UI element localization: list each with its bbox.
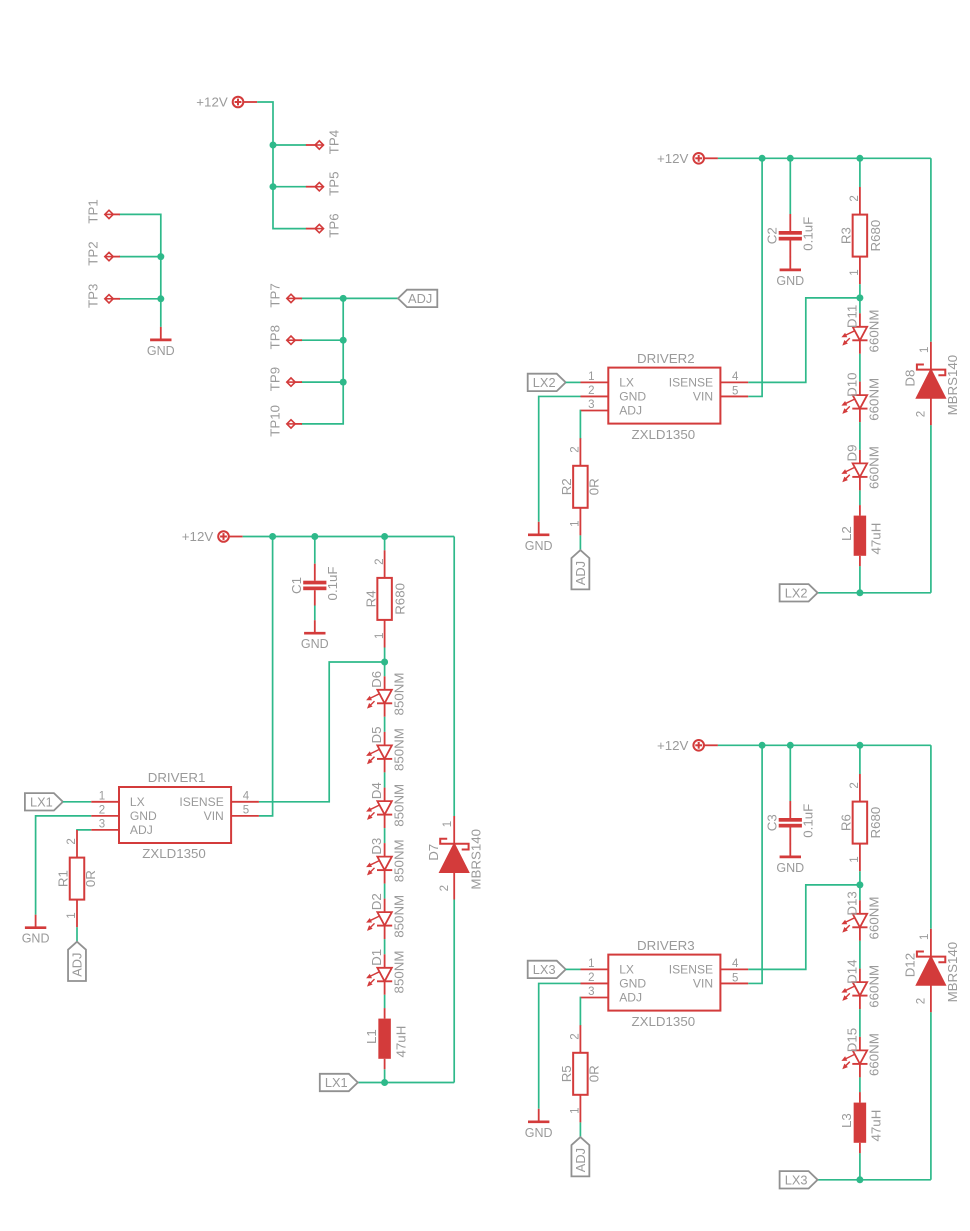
svg-text:2: 2 <box>916 411 928 417</box>
wire ISENSE driver3 <box>748 885 860 970</box>
wire rail to R6 <box>859 745 861 774</box>
wire pin3 to R5 <box>579 998 581 1026</box>
svg-text:+12V: +12V <box>182 529 214 544</box>
wire LX3 to pin1 <box>566 968 581 970</box>
junction R4 rail <box>381 533 388 540</box>
svg-text:4: 4 <box>732 371 739 383</box>
LED D1 850NM <box>366 949 406 995</box>
svg-text:GND: GND <box>776 274 804 288</box>
svg-text:3: 3 <box>588 399 594 411</box>
svg-text:D2: D2 <box>369 893 384 910</box>
junction TP9 node <box>340 379 347 386</box>
svg-text:R6: R6 <box>839 814 854 831</box>
wire pin3 to R2 <box>579 411 581 439</box>
svg-text:D4: D4 <box>369 782 384 799</box>
svg-text:660NM: 660NM <box>867 965 882 1008</box>
svg-text:TP7: TP7 <box>268 283 283 307</box>
wire TP5 branch <box>273 186 306 188</box>
wire D6 to D5 <box>384 717 386 732</box>
ground GND at C3 <box>776 844 804 875</box>
svg-text:ADJ: ADJ <box>619 991 642 1005</box>
wire R1 to ADJ flag <box>76 927 78 942</box>
resistor R5 0R <box>559 1025 601 1122</box>
svg-text:GND: GND <box>619 390 646 404</box>
net label ADJ driver3 <box>571 1137 589 1176</box>
svg-text:L1: L1 <box>364 1029 379 1044</box>
svg-text:0.1uF: 0.1uF <box>800 217 815 251</box>
svg-text:TP8: TP8 <box>268 325 283 349</box>
svg-text:VIN: VIN <box>693 390 713 404</box>
svg-text:5: 5 <box>732 972 738 984</box>
svg-text:LX: LX <box>619 376 634 390</box>
svg-text:2: 2 <box>849 195 861 201</box>
wire LX2 bottom <box>818 592 931 594</box>
wire TP2 to trunk <box>119 256 161 258</box>
testpoint TP10 <box>268 405 302 437</box>
resistor R1 0R <box>56 830 98 927</box>
svg-text:ADJ: ADJ <box>573 561 588 585</box>
svg-text:MBRS140: MBRS140 <box>945 942 960 1003</box>
junction ISENSE node driver3 <box>856 881 863 888</box>
net label LX3 at pin1 <box>528 961 566 978</box>
junction R3 rail <box>856 155 863 162</box>
wire L1 to LX1 node <box>384 1069 386 1082</box>
testpoint TP3 <box>86 284 120 308</box>
svg-text:D9: D9 <box>844 445 859 462</box>
wire D15 to L3 <box>859 1077 861 1092</box>
svg-text:ADJ: ADJ <box>619 404 642 418</box>
junction VIN rail driver3 <box>759 742 766 749</box>
wire rail to C1 <box>314 537 316 564</box>
svg-text:660NM: 660NM <box>867 446 882 489</box>
wire D12 to LX3 node <box>930 1012 932 1180</box>
svg-text:2: 2 <box>588 385 594 397</box>
net label ADJ driver2 <box>571 550 589 589</box>
LED D10 660NM <box>841 372 881 422</box>
wire D2 to D1 <box>384 939 386 954</box>
net label LX2 bottom <box>780 584 818 601</box>
net label LX3 bottom <box>780 1171 818 1188</box>
wire D7 to LX1 node <box>453 900 455 1083</box>
wire R4 to ISENSE node <box>384 648 386 663</box>
capacitor C3 <box>764 801 815 844</box>
svg-text:ADJ: ADJ <box>70 953 85 977</box>
wire TP7-TP10 trunk <box>301 298 343 424</box>
svg-text:ZXLD1350: ZXLD1350 <box>632 427 696 442</box>
svg-text:MBRS140: MBRS140 <box>468 829 483 890</box>
junction TP5 node <box>270 183 277 190</box>
inductor L2 47uH <box>839 505 884 566</box>
LED D5 850NM <box>366 727 406 773</box>
LED D14 660NM <box>841 959 881 1009</box>
svg-text:ISENSE: ISENSE <box>669 376 713 390</box>
junction R6 rail <box>856 742 863 749</box>
wire R2 to ADJ flag <box>579 535 581 550</box>
svg-text:D7: D7 <box>426 844 441 861</box>
svg-text:660NM: 660NM <box>867 1033 882 1076</box>
wire VIN driver1 <box>259 537 273 816</box>
testpoint TP8 <box>268 325 302 349</box>
svg-text:1: 1 <box>442 821 454 827</box>
svg-text:660NM: 660NM <box>867 378 882 421</box>
wire TP4 branch <box>273 144 306 146</box>
svg-text:D6: D6 <box>369 671 384 688</box>
svg-text:850NM: 850NM <box>391 728 406 771</box>
svg-text:D12: D12 <box>903 953 918 977</box>
wire TP1 to GND trunk <box>119 214 161 327</box>
svg-text:TP2: TP2 <box>86 241 101 265</box>
ic DRIVER3 ZXLD1350 <box>581 938 749 1029</box>
resistor R4 <box>363 550 407 647</box>
svg-text:ISENSE: ISENSE <box>179 795 223 809</box>
wire +12V rail driver2 <box>718 157 931 159</box>
LED D15 660NM <box>841 1028 881 1078</box>
wire TP3 to trunk <box>119 298 161 300</box>
wire node to D11 <box>859 298 861 313</box>
net label LX1 at pin1 <box>25 793 63 810</box>
svg-text:LX1: LX1 <box>30 794 53 809</box>
svg-text:47uH: 47uH <box>393 1026 408 1058</box>
wire D1 to L1 <box>384 995 386 1008</box>
ground GND at C1 <box>301 620 329 651</box>
wire D11 to D10 <box>859 354 861 382</box>
wire node to D13 <box>859 885 861 900</box>
svg-text:0R: 0R <box>83 870 98 887</box>
svg-text:850NM: 850NM <box>391 839 406 882</box>
junction TP2 node <box>157 253 164 260</box>
svg-text:1: 1 <box>588 958 594 970</box>
svg-text:850NM: 850NM <box>391 673 406 716</box>
svg-text:3: 3 <box>588 986 594 998</box>
testpoint TP1 <box>86 199 120 223</box>
svg-text:DRIVER3: DRIVER3 <box>637 938 695 953</box>
LED D6 850NM <box>366 671 406 717</box>
svg-text:2: 2 <box>570 446 582 452</box>
svg-text:LX2: LX2 <box>785 585 808 600</box>
wire TP8 branch <box>301 339 343 341</box>
wire R6 to ISENSE node <box>859 871 861 885</box>
svg-text:5: 5 <box>732 385 738 397</box>
wire LX2 to pin1 <box>566 381 581 383</box>
junction TP7 node <box>340 295 347 302</box>
testpoint TP2 <box>86 241 120 265</box>
junction ISENSE node driver2 <box>856 294 863 301</box>
wire D4 to D3 <box>384 828 386 843</box>
svg-text:ZXLD1350: ZXLD1350 <box>632 1014 696 1029</box>
wire pin2 to GND driver3 <box>539 983 581 1108</box>
junction VIN rail driver2 <box>759 155 766 162</box>
svg-text:R1: R1 <box>56 870 71 887</box>
svg-text:TP10: TP10 <box>268 405 283 437</box>
svg-text:MBRS140: MBRS140 <box>945 355 960 416</box>
wire D14 to D15 <box>859 1009 861 1037</box>
svg-text:1: 1 <box>374 633 386 639</box>
svg-text:C2: C2 <box>764 227 779 244</box>
testpoint TP9 <box>268 367 302 391</box>
junction C1 rail <box>311 533 318 540</box>
svg-text:3: 3 <box>99 818 105 830</box>
svg-text:ISENSE: ISENSE <box>669 963 713 977</box>
svg-text:ADJ: ADJ <box>130 823 153 837</box>
svg-text:0.1uF: 0.1uF <box>325 566 340 600</box>
LED D4 850NM <box>366 782 406 828</box>
wire L2 to LX2 node <box>859 566 861 593</box>
wire rail to R3 <box>859 158 861 187</box>
svg-text:LX3: LX3 <box>533 962 556 977</box>
schottky diode D8 MBRS140 <box>903 342 961 426</box>
wire node to D6 <box>384 662 386 676</box>
ground GND testpoints <box>147 327 175 358</box>
wire +12V trunk <box>257 102 306 229</box>
junction TP4 node <box>270 142 277 149</box>
LED D13 660NM <box>841 891 881 941</box>
svg-text:5: 5 <box>243 805 249 817</box>
testpoint TP7 <box>268 283 302 307</box>
wire D13 to D14 <box>859 941 861 969</box>
ic DRIVER1 ZXLD1350 <box>91 770 259 861</box>
testpoint TP5 <box>306 172 341 196</box>
svg-text:47uH: 47uH <box>869 1110 884 1142</box>
wire rail to C2 <box>789 158 791 214</box>
svg-text:D10: D10 <box>844 372 859 396</box>
wire trunk to ADJ flag <box>343 297 398 299</box>
svg-text:47uH: 47uH <box>869 523 884 555</box>
power +12V testpoints <box>196 95 257 110</box>
svg-text:850NM: 850NM <box>391 895 406 938</box>
svg-text:D1: D1 <box>369 949 384 966</box>
svg-text:R5: R5 <box>559 1065 574 1082</box>
wire pin2 to GND <box>36 816 92 915</box>
svg-text:ADJ: ADJ <box>573 1148 588 1172</box>
svg-text:2: 2 <box>374 558 386 564</box>
svg-text:2: 2 <box>588 972 594 984</box>
schottky diode D12 MBRS140 <box>903 929 961 1013</box>
svg-text:1: 1 <box>66 912 78 918</box>
svg-text:850NM: 850NM <box>391 951 406 994</box>
power +12V driver1 <box>182 529 243 544</box>
svg-text:2: 2 <box>570 1033 582 1039</box>
svg-text:GND: GND <box>776 861 804 875</box>
LED D9 660NM <box>841 445 881 491</box>
svg-text:2: 2 <box>66 838 78 844</box>
junction LX3 node <box>856 1176 863 1183</box>
svg-text:TP1: TP1 <box>86 199 101 223</box>
wire LX3 bottom <box>818 1179 931 1181</box>
inductor L3 47uH <box>839 1092 884 1153</box>
svg-text:LX: LX <box>130 795 145 809</box>
junction C3 rail <box>787 742 794 749</box>
wire L3 to LX3 node <box>859 1153 861 1180</box>
svg-text:2: 2 <box>99 804 105 816</box>
svg-text:D15: D15 <box>844 1028 859 1052</box>
net label ADJ testpoints <box>398 290 437 307</box>
svg-text:D5: D5 <box>369 727 384 744</box>
svg-text:VIN: VIN <box>693 977 713 991</box>
wire pin3 to R1 <box>77 829 91 831</box>
junction VIN rail driver1 <box>269 533 276 540</box>
wire rail to D7 <box>453 537 455 817</box>
net label LX1 bottom <box>320 1074 358 1091</box>
wire rail to R4 <box>384 537 386 551</box>
junction LX1 node <box>381 1079 388 1086</box>
svg-text:GND: GND <box>147 344 175 358</box>
LED D2 850NM <box>366 893 406 939</box>
wire +12V rail driver1 <box>243 536 455 538</box>
power +12V driver2 <box>657 151 718 166</box>
wire ISENSE driver2 <box>748 298 860 383</box>
net label LX2 at pin1 <box>528 374 566 391</box>
svg-text:0R: 0R <box>586 478 601 495</box>
LED D11 660NM <box>841 305 881 354</box>
svg-text:1: 1 <box>849 856 861 862</box>
wire R3 to ISENSE node <box>859 284 861 298</box>
svg-text:0.1uF: 0.1uF <box>800 804 815 838</box>
svg-text:ZXLD1350: ZXLD1350 <box>142 846 206 861</box>
resistor R6 <box>839 774 883 871</box>
svg-text:0R: 0R <box>586 1065 601 1082</box>
net label ADJ driver1 <box>68 942 86 981</box>
svg-text:GND: GND <box>130 809 157 823</box>
svg-text:VIN: VIN <box>204 809 224 823</box>
wire TP9 branch <box>301 381 343 383</box>
wire rail to C3 <box>789 745 791 801</box>
svg-text:TP3: TP3 <box>86 284 101 308</box>
svg-text:2: 2 <box>849 782 861 788</box>
resistor R2 0R <box>559 438 601 535</box>
svg-text:1: 1 <box>570 1107 582 1113</box>
svg-text:+12V: +12V <box>657 738 689 753</box>
svg-text:D3: D3 <box>369 838 384 855</box>
svg-text:+12V: +12V <box>196 95 228 110</box>
svg-text:C1: C1 <box>289 577 304 594</box>
ic DRIVER2 ZXLD1350 <box>581 351 749 442</box>
svg-text:1: 1 <box>919 934 931 940</box>
wire LX1 to pin1 <box>63 801 91 803</box>
svg-text:D11: D11 <box>844 305 859 328</box>
svg-text:GND: GND <box>22 932 50 946</box>
inductor L1 47uH <box>364 1008 409 1069</box>
svg-text:C3: C3 <box>764 814 779 831</box>
junction ISENSE node driver1 <box>381 659 388 666</box>
svg-text:LX: LX <box>619 963 634 977</box>
svg-text:1: 1 <box>588 371 594 383</box>
svg-text:R4: R4 <box>363 590 378 607</box>
resistor R3 <box>839 187 883 284</box>
svg-text:D13: D13 <box>844 891 859 915</box>
wire rail to D8 <box>930 158 932 341</box>
svg-text:850NM: 850NM <box>391 784 406 827</box>
svg-text:4: 4 <box>732 958 739 970</box>
svg-text:R2: R2 <box>559 478 574 495</box>
svg-text:1: 1 <box>570 520 582 526</box>
svg-text:TP6: TP6 <box>326 213 341 237</box>
LED D3 850NM <box>366 838 406 884</box>
svg-text:+12V: +12V <box>657 151 689 166</box>
svg-text:LX2: LX2 <box>533 375 556 390</box>
svg-text:1: 1 <box>919 347 931 353</box>
testpoint TP4 <box>306 130 341 154</box>
svg-text:R680: R680 <box>393 583 408 615</box>
svg-text:R3: R3 <box>839 227 854 244</box>
junction LX2 node <box>856 589 863 596</box>
svg-text:ADJ: ADJ <box>408 291 432 306</box>
wire LX1 bottom <box>358 1082 454 1084</box>
wire D3 to D2 <box>384 884 386 899</box>
junction TP8 node <box>340 337 347 344</box>
svg-text:2: 2 <box>916 998 928 1004</box>
svg-text:D8: D8 <box>903 370 918 387</box>
svg-text:1: 1 <box>99 790 105 802</box>
svg-text:DRIVER2: DRIVER2 <box>637 351 695 366</box>
wire rail to D12 <box>930 745 932 929</box>
svg-text:TP5: TP5 <box>326 172 341 196</box>
wire D10 to D9 <box>859 422 861 450</box>
svg-text:660NM: 660NM <box>867 310 882 353</box>
svg-text:4: 4 <box>243 791 250 803</box>
svg-text:TP9: TP9 <box>268 367 283 391</box>
svg-text:660NM: 660NM <box>867 897 882 940</box>
wire D8 to LX2 node <box>930 425 932 593</box>
wire pin2 to GND driver2 <box>539 396 581 521</box>
svg-text:DRIVER1: DRIVER1 <box>148 770 206 785</box>
ground GND driver3 <box>525 1109 553 1140</box>
wire VIN driver3 <box>748 745 762 983</box>
svg-text:R680: R680 <box>868 220 883 252</box>
svg-text:LX3: LX3 <box>785 1172 808 1187</box>
wire D5 to D4 <box>384 772 386 787</box>
svg-text:GND: GND <box>525 539 553 553</box>
wire R5 to ADJ flag <box>579 1122 581 1137</box>
ground GND at C2 <box>776 257 804 288</box>
svg-text:2: 2 <box>439 885 451 891</box>
capacitor C2 <box>764 214 815 257</box>
svg-text:GND: GND <box>619 977 646 991</box>
svg-text:L3: L3 <box>839 1113 854 1128</box>
svg-text:R680: R680 <box>868 807 883 839</box>
svg-text:1: 1 <box>849 269 861 275</box>
ground GND driver2 <box>525 522 553 553</box>
testpoint TP6 <box>306 213 341 237</box>
capacitor C1 <box>289 564 340 606</box>
wire VIN driver2 <box>748 158 762 396</box>
wire D9 to L2 <box>859 490 861 505</box>
wire ISENSE driver1 <box>259 662 385 802</box>
svg-text:D14: D14 <box>844 959 859 983</box>
junction TP3 node <box>157 295 164 302</box>
ground GND driver1 <box>22 915 50 946</box>
svg-text:L2: L2 <box>839 526 854 541</box>
svg-text:LX1: LX1 <box>325 1075 348 1090</box>
svg-text:GND: GND <box>301 637 329 651</box>
svg-text:TP4: TP4 <box>326 130 341 154</box>
schottky diode D7 MBRS140 <box>426 816 484 900</box>
wire +12V rail driver3 <box>718 744 931 746</box>
power +12V driver3 <box>657 738 718 753</box>
svg-text:GND: GND <box>525 1126 553 1140</box>
junction C2 rail <box>787 155 794 162</box>
wire C1 to GND <box>314 606 316 621</box>
